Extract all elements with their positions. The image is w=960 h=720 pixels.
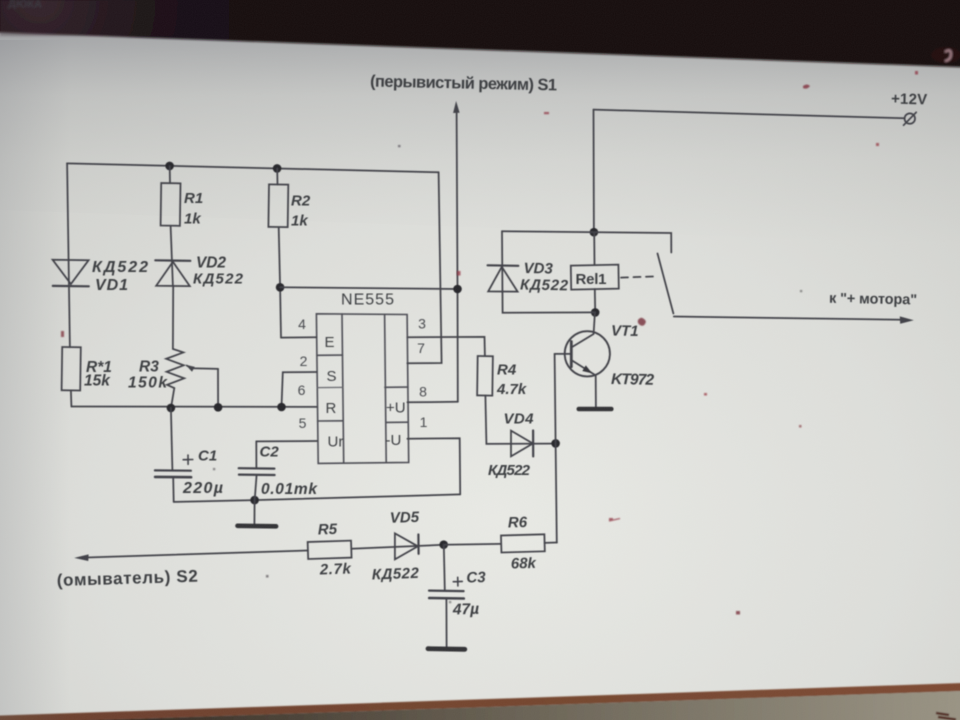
resistor R*1 — [62, 347, 81, 391]
wire pin 8 — [407, 401, 457, 404]
power +12V terminal — [905, 113, 915, 123]
ground VT1 emitter — [579, 407, 612, 412]
wire top rail — [67, 163, 439, 172]
wire relay top — [593, 232, 595, 265]
diode VD5 — [395, 533, 418, 559]
wire ground bus C1-C2-pin1 — [174, 494, 461, 502]
wire +12V horizontal — [594, 110, 905, 119]
IC U1 NE555 box — [316, 314, 408, 464]
wire relay bottom to collector — [594, 289, 596, 312]
ground C2 — [253, 500, 255, 525]
resistor R6 — [501, 534, 545, 552]
wire pin 7 to top loop — [407, 172, 441, 363]
resistor R2 — [268, 184, 288, 227]
node R1 top — [165, 162, 174, 171]
diode VD2 — [155, 259, 190, 262]
transistor VT1 — [565, 331, 610, 376]
relay Rel1 coil box — [571, 265, 619, 290]
wire R4 to VD4 — [485, 396, 551, 444]
node VD5 cathode — [439, 540, 448, 549]
wire base vertical — [555, 354, 557, 543]
node VD4 cathode / base junction — [551, 439, 560, 448]
node rail R3 — [167, 404, 176, 413]
node rail wiper — [214, 403, 223, 412]
node rail pin2 — [277, 403, 286, 412]
diode VD4 — [511, 431, 533, 457]
capacitor C1 — [171, 408, 173, 470]
wire R2 down to rail and pin 4 — [279, 227, 281, 337]
wire +12V down to relay — [593, 110, 595, 233]
resistor R5 — [308, 541, 352, 559]
wire pin 4 — [281, 336, 316, 338]
diode VD1 — [53, 260, 89, 284]
capacitor C3 — [444, 545, 445, 591]
wire pin 2 — [282, 372, 317, 407]
wire washer arrow S2 — [87, 551, 308, 558]
node junction +12V / switch — [590, 228, 599, 237]
wire R5 to VD5 — [351, 545, 443, 549]
wire motor output arrow — [674, 317, 902, 320]
switch S1 blade (relay contact) — [658, 254, 674, 314]
wire dashed relay link — [621, 276, 656, 277]
wire pin 5 — [256, 440, 317, 442]
resistor R1 — [161, 183, 181, 226]
node collector junction — [591, 308, 600, 317]
label + (C1) — [183, 455, 193, 464]
capacitor C2 — [255, 441, 257, 468]
node rail left — [276, 283, 285, 292]
ground C3 — [428, 646, 465, 651]
wire to switch contact — [502, 231, 671, 252]
wire supply rail — [280, 287, 457, 289]
potentiometer R3 — [166, 349, 184, 388]
wire pin 6 bottom rail — [72, 406, 317, 408]
diode VD3 — [488, 264, 519, 267]
label + (C3) — [453, 577, 462, 586]
resistor R4 — [477, 356, 493, 396]
node ground junction — [250, 496, 259, 505]
node R2 top — [273, 164, 282, 173]
wire pin 1 to ground node — [407, 438, 460, 494]
wire pin3 to R4 — [407, 337, 485, 356]
wiper R3 — [187, 366, 218, 369]
node rail right — [453, 285, 462, 294]
wire S1 vertical to +12V rail node — [457, 111, 458, 402]
